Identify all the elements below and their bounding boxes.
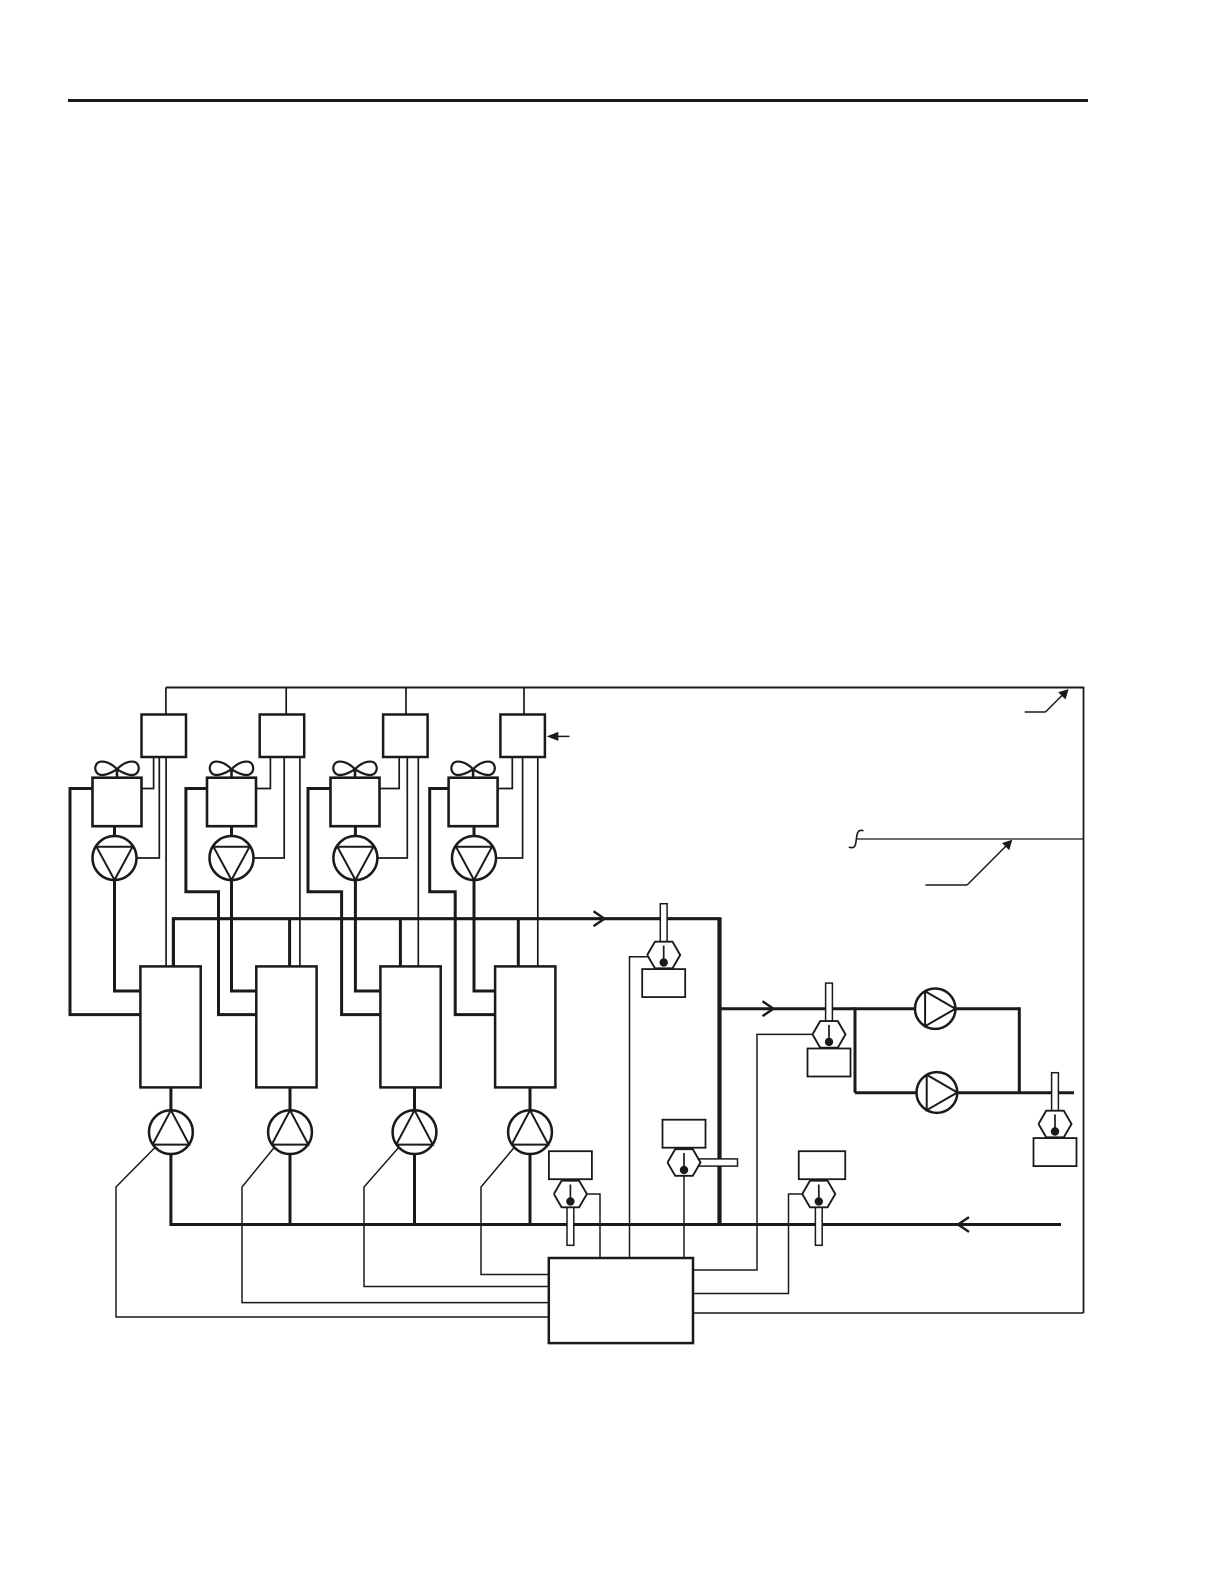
- pipe: M4 to pump MP4: [529, 1086, 532, 1111]
- pump MP3 (module return): [393, 1110, 437, 1154]
- wire: MP4 signal to controller: [481, 1147, 549, 1274]
- wire: U4 to A4: [498, 757, 513, 789]
- wire: U4 to indoor module M4: [537, 757, 539, 967]
- pipe: header tee to M3: [399, 919, 402, 968]
- fan of outdoor unit A4: [451, 762, 494, 779]
- pipe: P2 to M2: [232, 879, 257, 991]
- annotation arrow to bus corner: [1025, 689, 1069, 712]
- pipe: A1 supply to M1: [70, 789, 140, 1015]
- pipe: A4 supply to M4: [430, 789, 495, 1015]
- pipe: MP3 to return main: [413, 1153, 416, 1225]
- wire: return sensor 2 link: [694, 1194, 803, 1294]
- wire: MP2 signal to controller: [242, 1147, 549, 1303]
- pipe: A3 supply to M3: [308, 789, 380, 1015]
- wire: separator sensor to control unit: [683, 1176, 685, 1258]
- pipe: A2 to pump P2: [230, 825, 233, 837]
- pipe: pump branch right: [1018, 1007, 1021, 1092]
- wire: U2 to pump P2: [254, 757, 285, 858]
- outdoor unit A2: [207, 778, 256, 827]
- pipe: A4 to pump P4: [473, 825, 476, 837]
- wire: bus drop to controller U3: [405, 688, 407, 716]
- annotation arrow to control line: [925, 840, 1012, 885]
- pipe: A2 supply to M2: [186, 789, 256, 1015]
- wire: MP3 signal to controller: [364, 1147, 549, 1286]
- sensor S2 on secondary supply: [808, 983, 851, 1076]
- indoor module M2: [256, 966, 316, 1087]
- pipe: A1 to pump P1: [113, 825, 116, 837]
- pump P2 (circulation): [210, 836, 254, 880]
- arrow on secondary supply: [763, 1001, 774, 1016]
- pipe: pump branch left: [854, 1007, 857, 1092]
- pump MP1 (module return): [149, 1110, 193, 1154]
- fan of outdoor unit A2: [210, 762, 253, 779]
- wire: bus drop to controller U1: [165, 688, 167, 716]
- wire: U1 to A1: [142, 757, 154, 789]
- control unit: [549, 1258, 693, 1343]
- pump P4 (circulation): [452, 836, 496, 880]
- wire: U1 to pump P1: [137, 757, 160, 858]
- fan of outdoor unit A3: [333, 762, 376, 779]
- indoor module M1: [140, 966, 200, 1087]
- pipe: M1 to pump MP1: [169, 1086, 172, 1111]
- horizontal rule: [68, 99, 1088, 102]
- sensor S6 on secondary return: [1034, 1073, 1077, 1166]
- arrow into controller U4: [547, 732, 570, 741]
- indoor module M4: [495, 966, 555, 1087]
- pump MP2 (module return): [268, 1110, 312, 1154]
- wire: U2 to indoor module M2: [299, 757, 301, 967]
- outdoor unit A4: [449, 778, 498, 827]
- wire: header sensor to control unit: [630, 957, 648, 1258]
- pipe: P1 to M1: [115, 879, 141, 991]
- arrow on return main: [958, 1217, 969, 1232]
- pipe: pump branch bottom / secondary return: [855, 1091, 1074, 1094]
- pipe: M3 to pump MP3: [413, 1086, 416, 1111]
- pump SP1 (secondary): [915, 989, 955, 1029]
- outdoor unit A3: [331, 778, 380, 827]
- pipe: M2 to pump MP2: [289, 1086, 292, 1111]
- wire: U1 to indoor module M1: [165, 757, 167, 967]
- wire: return sensor link: [587, 1194, 600, 1258]
- pump SP2 (secondary): [917, 1072, 958, 1113]
- pipe: P3 to M3: [355, 879, 380, 991]
- indoor module M3: [380, 966, 440, 1087]
- pump MP4 (module return): [508, 1110, 552, 1154]
- pipe: header tee to M4: [517, 919, 520, 968]
- wire: U3 to A3: [380, 757, 400, 789]
- wire: MP1 signal to controller: [116, 1147, 549, 1317]
- sensor S3 in low-loss header: [663, 1120, 738, 1176]
- wire: supply sensor link: [694, 1034, 813, 1270]
- fan of outdoor unit A1: [95, 762, 138, 779]
- controller U1: [142, 715, 187, 758]
- pipe: MP2 to return main: [289, 1153, 292, 1225]
- wire: bus drop to controller U4: [523, 688, 525, 716]
- pipe: low-loss header: [717, 917, 721, 1224]
- pipe: MP1 to return main: [169, 1153, 172, 1225]
- wire: U3 to indoor module M3: [417, 757, 419, 967]
- wire: U2 to A2: [256, 757, 270, 789]
- controller U3: [383, 715, 428, 758]
- controller U2: [260, 715, 305, 758]
- wire: right border signal line: [1083, 687, 1085, 1313]
- sensor S4 on return main: [549, 1151, 592, 1245]
- wire: bus drop to controller U2: [285, 688, 287, 716]
- pump P1 (circulation): [93, 836, 137, 880]
- sensor S1 on supply header: [642, 904, 685, 997]
- pipe: P4 to M4: [474, 879, 495, 991]
- pipe: pump branch top: [855, 1007, 1019, 1010]
- arrow on supply header: [594, 911, 605, 926]
- wire: U4 to pump P4: [496, 757, 523, 858]
- pipe: header tee to M2: [288, 919, 291, 968]
- pipe: MP4 to return main: [529, 1153, 532, 1225]
- wire: control unit to bus: [693, 1312, 1084, 1314]
- wire: outdoor-unit control bus: [166, 687, 1084, 689]
- wire: U3 to pump P3: [377, 757, 407, 858]
- pipe: secondary supply: [720, 1007, 856, 1010]
- pipe: primary return main: [169, 1223, 1061, 1226]
- outdoor unit A1: [93, 778, 142, 827]
- controller U4: [500, 715, 545, 758]
- sensor S5 on return main: [799, 1151, 846, 1245]
- wire: control line with break curl: [849, 830, 1083, 847]
- pipe: primary supply header: [173, 919, 719, 967]
- pipe: A3 to pump P3: [354, 825, 357, 837]
- pump P3 (circulation): [333, 836, 377, 880]
